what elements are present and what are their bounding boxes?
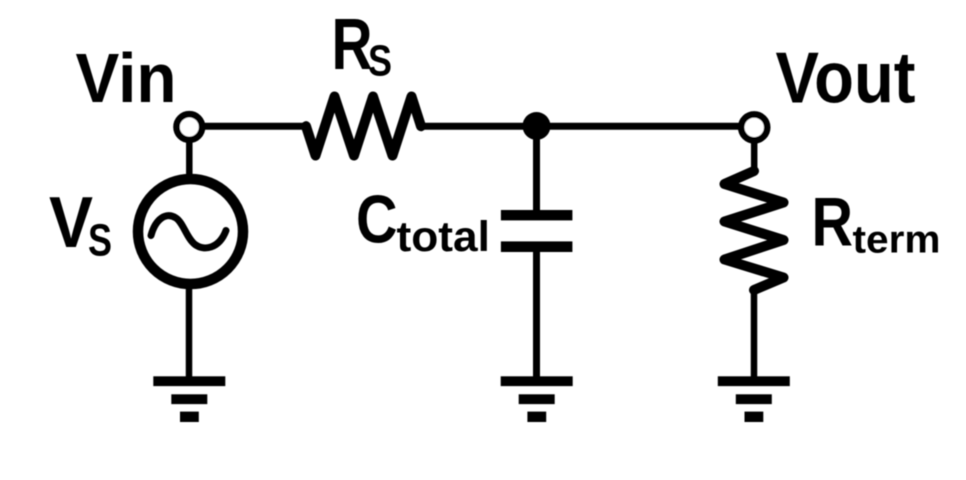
node Vout (open terminal circle) xyxy=(741,114,767,140)
ground (below Ctotal) xyxy=(501,376,573,422)
node Vin (open terminal circle) xyxy=(177,114,203,140)
svg-text:Vin: Vin xyxy=(76,39,177,117)
capacitor C1 Ctotal plates xyxy=(501,210,573,252)
svg-text:R: R xyxy=(812,183,854,260)
voltage source VS (circle) xyxy=(138,179,243,284)
svg-text:term: term xyxy=(853,219,941,262)
junction node (filled dot) xyxy=(523,112,551,140)
wire capacitor Ctotal to ground xyxy=(533,250,540,378)
svg-text:V: V xyxy=(49,183,93,263)
label Ctotal xyxy=(356,182,490,262)
label VS xyxy=(49,183,112,265)
label RS xyxy=(332,5,393,85)
svg-text:total: total xyxy=(397,213,491,261)
wire resistor RS to junction and on to Vout node xyxy=(418,123,742,130)
svg-text:R: R xyxy=(332,5,373,85)
svg-text:C: C xyxy=(356,182,398,258)
wire junction down to capacitor Ctotal xyxy=(533,126,540,212)
wire Vin node to resistor RS xyxy=(200,123,308,130)
ground (below Rterm) xyxy=(718,376,790,422)
voltage source VS sine wave xyxy=(151,216,226,248)
svg-text:Vout: Vout xyxy=(776,38,916,119)
label Rterm xyxy=(812,183,941,261)
wire resistor Rterm to ground xyxy=(751,289,758,378)
resistor R1 RS (zigzag) xyxy=(306,97,421,156)
svg-text:S: S xyxy=(368,36,392,85)
wire Vout node down to resistor Rterm xyxy=(751,139,758,173)
svg-text:S: S xyxy=(88,214,112,265)
wire Vin node down to source VS xyxy=(186,138,193,182)
resistor R2 Rterm (vertical zigzag) xyxy=(725,171,784,290)
ground (below VS) xyxy=(153,376,225,422)
wire source VS bottom to ground xyxy=(186,283,193,378)
